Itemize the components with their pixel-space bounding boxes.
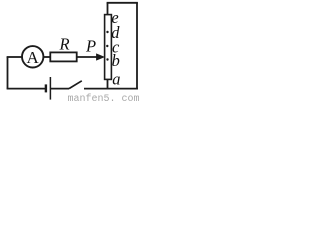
wire left top horizontal xyxy=(7,56,22,58)
ammeter A xyxy=(22,46,43,67)
svg-text:b: b xyxy=(112,51,120,70)
wire rheostat top stub xyxy=(107,3,109,15)
tap dot d xyxy=(106,31,108,33)
wire rheostat bottom stub xyxy=(107,79,109,88)
wire battery to switch xyxy=(51,88,69,90)
svg-text:P: P xyxy=(85,36,96,55)
wire bottom left to battery xyxy=(7,88,46,90)
svg-text:R: R xyxy=(59,34,70,53)
wire switch to bottom right xyxy=(84,88,138,90)
svg-text:A: A xyxy=(26,48,39,67)
wire resistor to slider arrow shaft xyxy=(77,56,101,58)
tap dot b xyxy=(106,58,108,60)
svg-text:manfen5. com: manfen5. com xyxy=(68,93,140,102)
wire ammeter to resistor xyxy=(44,56,51,58)
switch S xyxy=(69,81,82,89)
rheostat body xyxy=(105,15,112,80)
tap dot c xyxy=(106,45,108,47)
resistor R xyxy=(50,52,76,61)
wire left vertical xyxy=(7,57,9,89)
slider P arrow xyxy=(97,54,105,60)
battery xyxy=(46,77,51,100)
wire top horizontal xyxy=(107,2,138,4)
svg-text:a: a xyxy=(112,69,120,88)
wire right vertical xyxy=(136,3,138,90)
